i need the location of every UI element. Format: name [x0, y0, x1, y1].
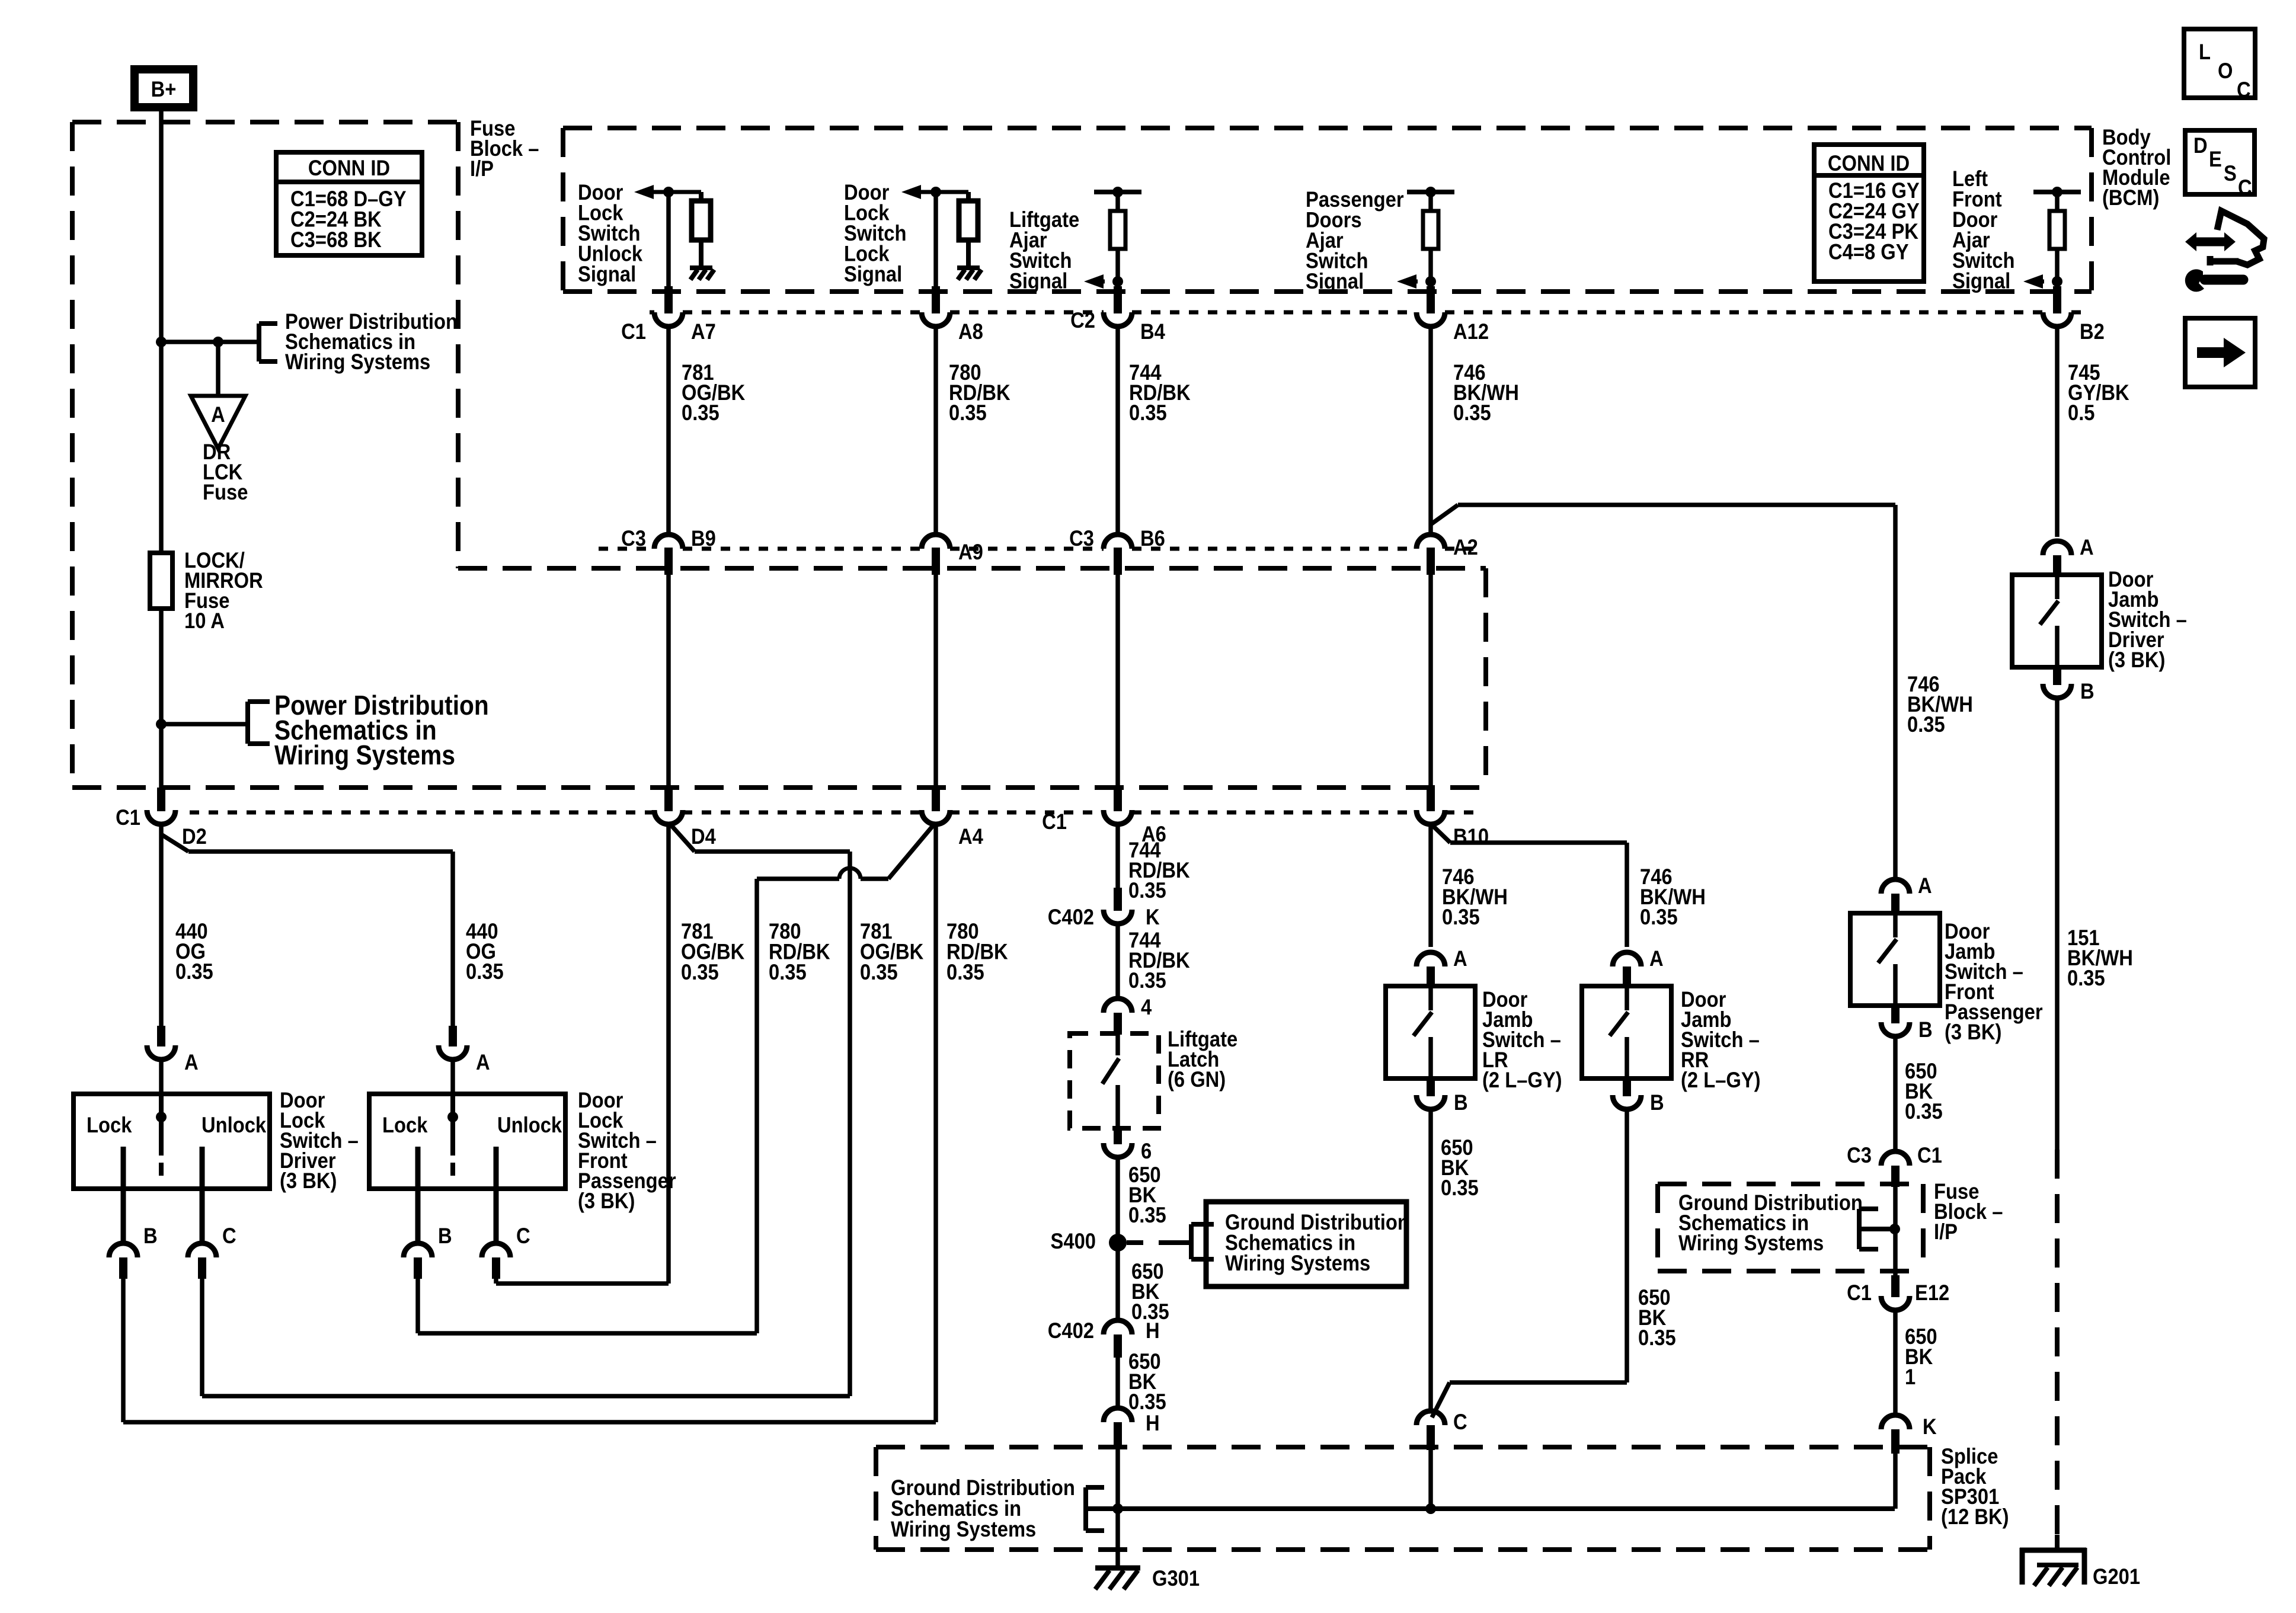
svg-text:C402: C402: [1048, 1318, 1094, 1343]
ground distribution pointer bracket (splice pack): [1083, 1487, 1088, 1531]
connector line row 1 (BCM connectors C1/C2): [650, 311, 654, 315]
svg-text:B10: B10: [1453, 824, 1489, 849]
connector C402 pin H: [1104, 1320, 1132, 1334]
svg-text:A12: A12: [1453, 319, 1489, 344]
door jamb switch front passenger pin B connector: [1891, 1006, 1900, 1023]
wire B4 to C3-B6: [1115, 326, 1120, 536]
wire BCM unlock signal to pin A7: [666, 192, 671, 286]
wire LR-B to connector C: [1428, 1109, 1433, 1412]
svg-text:Unlock: Unlock: [202, 1113, 267, 1137]
svg-text:0.35: 0.35: [1128, 878, 1166, 902]
splice S400: [1109, 1234, 1127, 1252]
door jamb switch driver box and contacts: [2012, 575, 2102, 667]
connector line row 3 (fuse block C1): [190, 811, 654, 815]
passenger lock switch pin A connector: [449, 1026, 457, 1046]
svg-text:E: E: [2209, 147, 2222, 171]
svg-text:I/P: I/P: [1934, 1220, 1958, 1244]
svg-text:C3: C3: [621, 526, 646, 551]
connector C1 pin D2: [157, 788, 165, 811]
connector C1 pin B10: [1427, 788, 1435, 811]
junction node upper power distribution: [156, 337, 167, 347]
svg-text:C: C: [1453, 1410, 1467, 1434]
wire D4 branch to driver unlock (781 OG/BK): [670, 824, 695, 852]
svg-text:A: A: [2080, 535, 2094, 559]
ground bus: [1118, 1506, 1895, 1511]
connector C3 pin A2: [1416, 535, 1445, 549]
svg-text:C: C: [2238, 175, 2252, 200]
connector C1 pin A12: [1416, 312, 1445, 327]
door lock switch driver common contact: [159, 1094, 164, 1156]
svg-text:Signal: Signal: [1009, 269, 1067, 293]
connector line row 2 (fuse block C3): [599, 547, 654, 551]
fuse A triangle symbol: [216, 342, 220, 396]
svg-text:G301: G301: [1152, 1566, 1200, 1590]
DESC reference box: [2185, 130, 2255, 194]
svg-text:B: B: [1454, 1090, 1468, 1115]
svg-text:4: 4: [1141, 995, 1152, 1019]
wire K to ground bus corner: [1893, 1454, 1898, 1509]
liftgate latch pin 6 connector: [1114, 1126, 1122, 1144]
wire fuse to connector C1-D2: [159, 609, 164, 790]
svg-text:(3 BK): (3 BK): [2108, 648, 2165, 672]
svg-text:A4: A4: [958, 824, 983, 849]
door lock switch driver Unlock contact wire: [200, 1147, 205, 1189]
svg-text:L: L: [2199, 40, 2211, 64]
svg-text:0.35: 0.35: [682, 401, 720, 425]
door lock switch front passenger Unlock contact wire: [494, 1147, 499, 1189]
connector C1 pin A6: [1114, 788, 1122, 811]
door lock switch front passenger Lock contact wire: [415, 1147, 421, 1189]
liftgate latch dashed box: [1070, 1033, 1159, 1128]
wire passenger lock B to 780 RD/BK wire: [415, 1279, 420, 1333]
wire BCM passenger doors signal to pin A12: [1428, 281, 1433, 286]
wire S400 to C402-H: [1115, 1243, 1120, 1322]
svg-text:0.35: 0.35: [175, 959, 213, 984]
wire B2 to driver door jamb switch: [2055, 326, 2060, 537]
svg-text:A9: A9: [958, 540, 983, 564]
splice pack pin C connector: [1416, 1411, 1445, 1425]
svg-text:0.35: 0.35: [681, 960, 719, 984]
svg-text:C: C: [516, 1224, 530, 1248]
svg-text:Lock: Lock: [382, 1113, 428, 1137]
ground bus junction at G301 wire: [1112, 1503, 1123, 1514]
svg-text:1: 1: [1905, 1365, 1916, 1389]
svg-text:(2 L–GY): (2 L–GY): [1482, 1068, 1562, 1092]
svg-text:D2: D2: [182, 824, 207, 849]
svg-text:(2 L–GY): (2 L–GY): [1681, 1068, 1761, 1092]
wire 440 OG branch to passenger lock switch: [161, 834, 188, 852]
wire hop at 781/780 crossover: [839, 868, 861, 879]
svg-text:Lock: Lock: [87, 1113, 132, 1137]
svg-text:B: B: [438, 1224, 452, 1248]
svg-text:H: H: [1146, 1318, 1160, 1343]
svg-text:CONN ID: CONN ID: [1828, 151, 1910, 175]
door jamb switch driver pin B connector: [2053, 667, 2061, 685]
svg-text:(12 BK): (12 BK): [1941, 1505, 2009, 1529]
door lock switch driver pin C connector: [200, 1189, 205, 1244]
wire 6 to splice S400: [1115, 1157, 1120, 1243]
svg-text:H: H: [1146, 1411, 1160, 1435]
svg-text:G201: G201: [2093, 1564, 2140, 1589]
wire 151 BK/WH from driver jamb switch: [2055, 698, 2060, 1150]
svg-text:C2: C2: [1070, 308, 1095, 332]
svg-text:Wiring Systems: Wiring Systems: [285, 350, 430, 374]
svg-text:B6: B6: [1140, 526, 1165, 551]
wire H to ground bus: [1115, 1445, 1120, 1568]
svg-text:(BCM): (BCM): [2102, 185, 2159, 210]
door lock switch driver Lock contact wire: [121, 1147, 126, 1189]
wire driver lock B to fuse block A4 wire: [121, 1279, 126, 1422]
svg-text:0.5: 0.5: [2068, 401, 2095, 425]
svg-text:Wiring Systems: Wiring Systems: [1225, 1251, 1370, 1275]
door jamb switch RR pin A connector: [1613, 952, 1641, 966]
wire BCM liftgate signal to pin B4: [1115, 281, 1120, 286]
door jamb switch LR pin A connector: [1416, 952, 1445, 966]
svg-text:0.35: 0.35: [1905, 1099, 1943, 1124]
svg-text:B: B: [1650, 1090, 1664, 1115]
power distribution pointer bracket (lower): [245, 702, 250, 744]
CONN ID table (fuse block): [276, 152, 422, 182]
svg-text:0.35: 0.35: [1441, 1176, 1479, 1200]
svg-text:0.35: 0.35: [1442, 905, 1480, 929]
svg-text:0.35: 0.35: [1907, 712, 1945, 737]
wire B10 branch to RR door jamb switch: [1432, 825, 1450, 843]
svg-text:A: A: [211, 402, 225, 427]
splice pack pin K connector: [1881, 1415, 1910, 1429]
wire A7 to C3-B9: [666, 326, 671, 536]
wire into fuse block with ground distribution junction: [1893, 1187, 1898, 1280]
wire C to ground bus: [1428, 1450, 1433, 1509]
splice pack pin H connector: [1104, 1408, 1132, 1422]
svg-text:B: B: [2080, 679, 2094, 703]
svg-text:A2: A2: [1453, 535, 1478, 559]
svg-text:(3 BK): (3 BK): [280, 1169, 337, 1193]
svg-text:K: K: [1923, 1414, 1937, 1439]
wire passenger lock C to 781 OG/BK wire: [494, 1279, 498, 1284]
svg-text:0.35: 0.35: [1453, 401, 1491, 425]
wire K to liftgate latch pin 4: [1115, 924, 1120, 1000]
svg-text:(3 BK): (3 BK): [578, 1189, 635, 1213]
svg-text:C4=8 GY: C4=8 GY: [1828, 240, 1909, 264]
wire driver lock C to 781 OG/BK wire: [200, 1279, 204, 1396]
svg-text:C3=68 BK: C3=68 BK: [290, 228, 382, 252]
ground G301: [1095, 1566, 1140, 1571]
BCM passenger doors ajar switch signal circuit (pull-up resistor + arrow): [1407, 190, 1454, 194]
svg-text:C3: C3: [1847, 1143, 1872, 1167]
service icon (wrench and arrows): [2217, 211, 2264, 265]
svg-text:S400: S400: [1051, 1229, 1096, 1253]
svg-text:Unlock: Unlock: [497, 1113, 562, 1137]
wire A6 to C402-K: [1115, 822, 1120, 888]
door jamb switch RR box and contacts: [1582, 986, 1671, 1078]
BCM left front door ajar switch signal circuit (pull-up resistor + arrow): [2033, 190, 2081, 194]
ground distribution pointer from S400: [1127, 1240, 1143, 1245]
wire BCM left front door signal to pin B2: [2055, 281, 2060, 286]
BCM door lock switch lock signal circuit (resistor + ground + arrow): [901, 185, 921, 199]
svg-text:Wiring Systems: Wiring Systems: [891, 1517, 1036, 1541]
wire A9 to A4: [933, 572, 938, 790]
splice pack SP301 dashed outline: [876, 1445, 1930, 1449]
svg-text:C402: C402: [1048, 905, 1094, 929]
svg-text:B4: B4: [1140, 319, 1165, 344]
svg-text:C: C: [2237, 78, 2251, 102]
svg-text:0.35: 0.35: [860, 960, 898, 984]
door jamb switch front passenger box and contacts: [1850, 913, 1940, 1006]
svg-text:E12: E12: [1915, 1281, 1949, 1305]
svg-text:0.35: 0.35: [769, 960, 807, 984]
door lock switch front passenger pin C connector: [494, 1189, 499, 1244]
svg-text:Signal: Signal: [1952, 269, 2010, 293]
next-page arrow box: [2185, 318, 2255, 387]
door jamb switch LR pin B connector: [1427, 1078, 1435, 1096]
svg-text:C1: C1: [621, 319, 646, 344]
svg-text:0.35: 0.35: [1638, 1326, 1676, 1350]
svg-text:A: A: [1649, 946, 1664, 971]
connector C3 pin A9: [922, 535, 950, 549]
svg-text:Signal: Signal: [1306, 269, 1364, 293]
wire A2 to B10: [1428, 572, 1433, 790]
driver lock switch pin A connector: [157, 1026, 165, 1046]
connector C1 pin A7: [654, 312, 683, 327]
body control module dashed outline: [563, 126, 2092, 130]
door lock switch front passenger pin B connector: [415, 1189, 421, 1244]
svg-text:B+: B+: [151, 77, 177, 101]
svg-text:A8: A8: [958, 319, 983, 344]
ground distribution note box (solid, S400): [1206, 1202, 1406, 1286]
LOCK/MIRROR fuse symbol: [150, 553, 172, 609]
B+ power symbol: [135, 69, 193, 107]
svg-text:C3: C3: [1069, 526, 1094, 551]
power distribution pointer bracket (upper): [257, 324, 261, 361]
svg-text:D: D: [2193, 133, 2208, 158]
svg-text:C1: C1: [1042, 809, 1067, 834]
svg-text:(6 GN): (6 GN): [1168, 1067, 1226, 1092]
svg-text:B9: B9: [691, 526, 716, 551]
connector C3 pin B9: [654, 535, 683, 549]
LOC reference box: [2184, 29, 2255, 98]
wire RR-B joining LR wire: [1625, 1109, 1629, 1382]
CONN ID table (BCM): [1814, 145, 1924, 175]
svg-text:0.35: 0.35: [1128, 968, 1166, 993]
door jamb switch driver pin A connector: [2043, 541, 2071, 555]
connector C2 pin B4: [1104, 312, 1132, 327]
svg-text:0.35: 0.35: [2067, 966, 2105, 990]
liftgate latch switch contacts: [1115, 1035, 1120, 1055]
svg-text:Wiring Systems: Wiring Systems: [1678, 1231, 1824, 1255]
BCM door lock switch unlock signal circuit (resistor + ground + arrow): [634, 185, 654, 199]
wire B10 to LR door jamb switch: [1428, 822, 1433, 947]
svg-text:Fuse: Fuse: [203, 480, 248, 504]
svg-text:B: B: [1918, 1017, 1933, 1042]
door lock switch front passenger box: [369, 1094, 565, 1189]
connector C1 pin A4: [932, 788, 940, 811]
svg-text:0.35: 0.35: [466, 959, 504, 984]
svg-text:B: B: [143, 1224, 158, 1248]
svg-text:0.35: 0.35: [946, 960, 984, 984]
svg-text:K: K: [1146, 905, 1160, 929]
svg-text:10 A: 10 A: [184, 609, 225, 633]
svg-text:0.35: 0.35: [1129, 401, 1167, 425]
svg-text:D4: D4: [691, 824, 716, 849]
junction node lower power distribution: [156, 719, 167, 729]
connector C402 pin K: [1114, 888, 1122, 911]
svg-text:Signal: Signal: [844, 262, 902, 286]
wire B+ to fuse: [159, 111, 164, 553]
wire BCM lock signal to pin A8: [933, 192, 938, 286]
wire 440 OG to driver lock switch: [159, 822, 164, 834]
BCM liftgate ajar switch signal circuit (pull-up resistor + arrow): [1094, 190, 1141, 194]
connector C1 pin D4: [664, 788, 673, 811]
wire B6 to A6: [1115, 572, 1120, 790]
door jamb switch front passenger pin A connector: [1881, 879, 1910, 894]
ground G201: [2055, 1535, 2060, 1553]
svg-text:Wiring Systems: Wiring Systems: [274, 741, 455, 771]
svg-text:(3 BK): (3 BK): [1945, 1020, 2001, 1044]
wire A8 to A9: [933, 326, 938, 536]
svg-text:C: C: [222, 1224, 236, 1248]
door lock switch front passenger common contact: [450, 1094, 455, 1156]
wire B9 to D4: [666, 572, 671, 790]
svg-text:A: A: [476, 1050, 490, 1074]
ground distribution dashed box (bottom right): [1658, 1182, 1923, 1186]
door lock switch driver pin B connector: [121, 1189, 126, 1244]
liftgate latch pin 4 connector: [1104, 998, 1132, 1013]
connector C3 pin B6: [1104, 535, 1132, 549]
svg-text:O: O: [2218, 59, 2233, 83]
connector C3-C1 (fuse block bottom right): [1881, 1151, 1910, 1166]
svg-text:B2: B2: [2080, 319, 2105, 344]
svg-text:A: A: [184, 1050, 199, 1074]
svg-text:0.35: 0.35: [1128, 1203, 1166, 1227]
wire C402-H to splice pack pin H: [1115, 1358, 1120, 1410]
door lock switch driver box: [73, 1094, 270, 1189]
svg-text:C1: C1: [116, 805, 140, 830]
svg-text:Signal: Signal: [578, 262, 636, 286]
svg-text:C1: C1: [1917, 1143, 1942, 1167]
svg-text:A: A: [1453, 946, 1467, 971]
ground distribution pointer bracket (bottom right): [1857, 1209, 1862, 1249]
svg-text:A7: A7: [691, 319, 716, 344]
connector C1 pin B2: [2043, 312, 2071, 327]
svg-text:I/P: I/P: [470, 156, 494, 181]
fuse block I/P dashed outline (left, L-shaped): [72, 120, 458, 124]
svg-text:A: A: [1918, 873, 1932, 898]
wire A4 down to driver lock (780 RD/BK): [933, 824, 938, 1422]
connector C1 pin A8: [922, 312, 950, 327]
wire FP-B to fuse block C3-C1: [1893, 1036, 1898, 1153]
svg-text:CONN ID: CONN ID: [308, 156, 390, 180]
svg-text:0.35: 0.35: [949, 401, 987, 425]
wire E12 to splice pack pin K: [1893, 1310, 1898, 1416]
svg-text:0.35: 0.35: [1640, 905, 1678, 929]
svg-text:6: 6: [1141, 1139, 1152, 1163]
wire A12 down with branch to front passenger door jamb switch: [1428, 326, 1433, 536]
svg-text:S: S: [2224, 161, 2237, 185]
door jamb switch LR box and contacts: [1386, 986, 1475, 1078]
dashed wire through splice pack to G201: [2055, 1150, 2060, 1548]
wire A4 branch to passenger lock (780 RD/BK): [888, 824, 935, 879]
door jamb switch RR pin B connector: [1623, 1078, 1631, 1096]
wire D4 down to passenger unlock: [666, 822, 671, 1284]
svg-text:C1: C1: [1847, 1281, 1872, 1305]
connector C1 pin E12: [1891, 1275, 1900, 1297]
